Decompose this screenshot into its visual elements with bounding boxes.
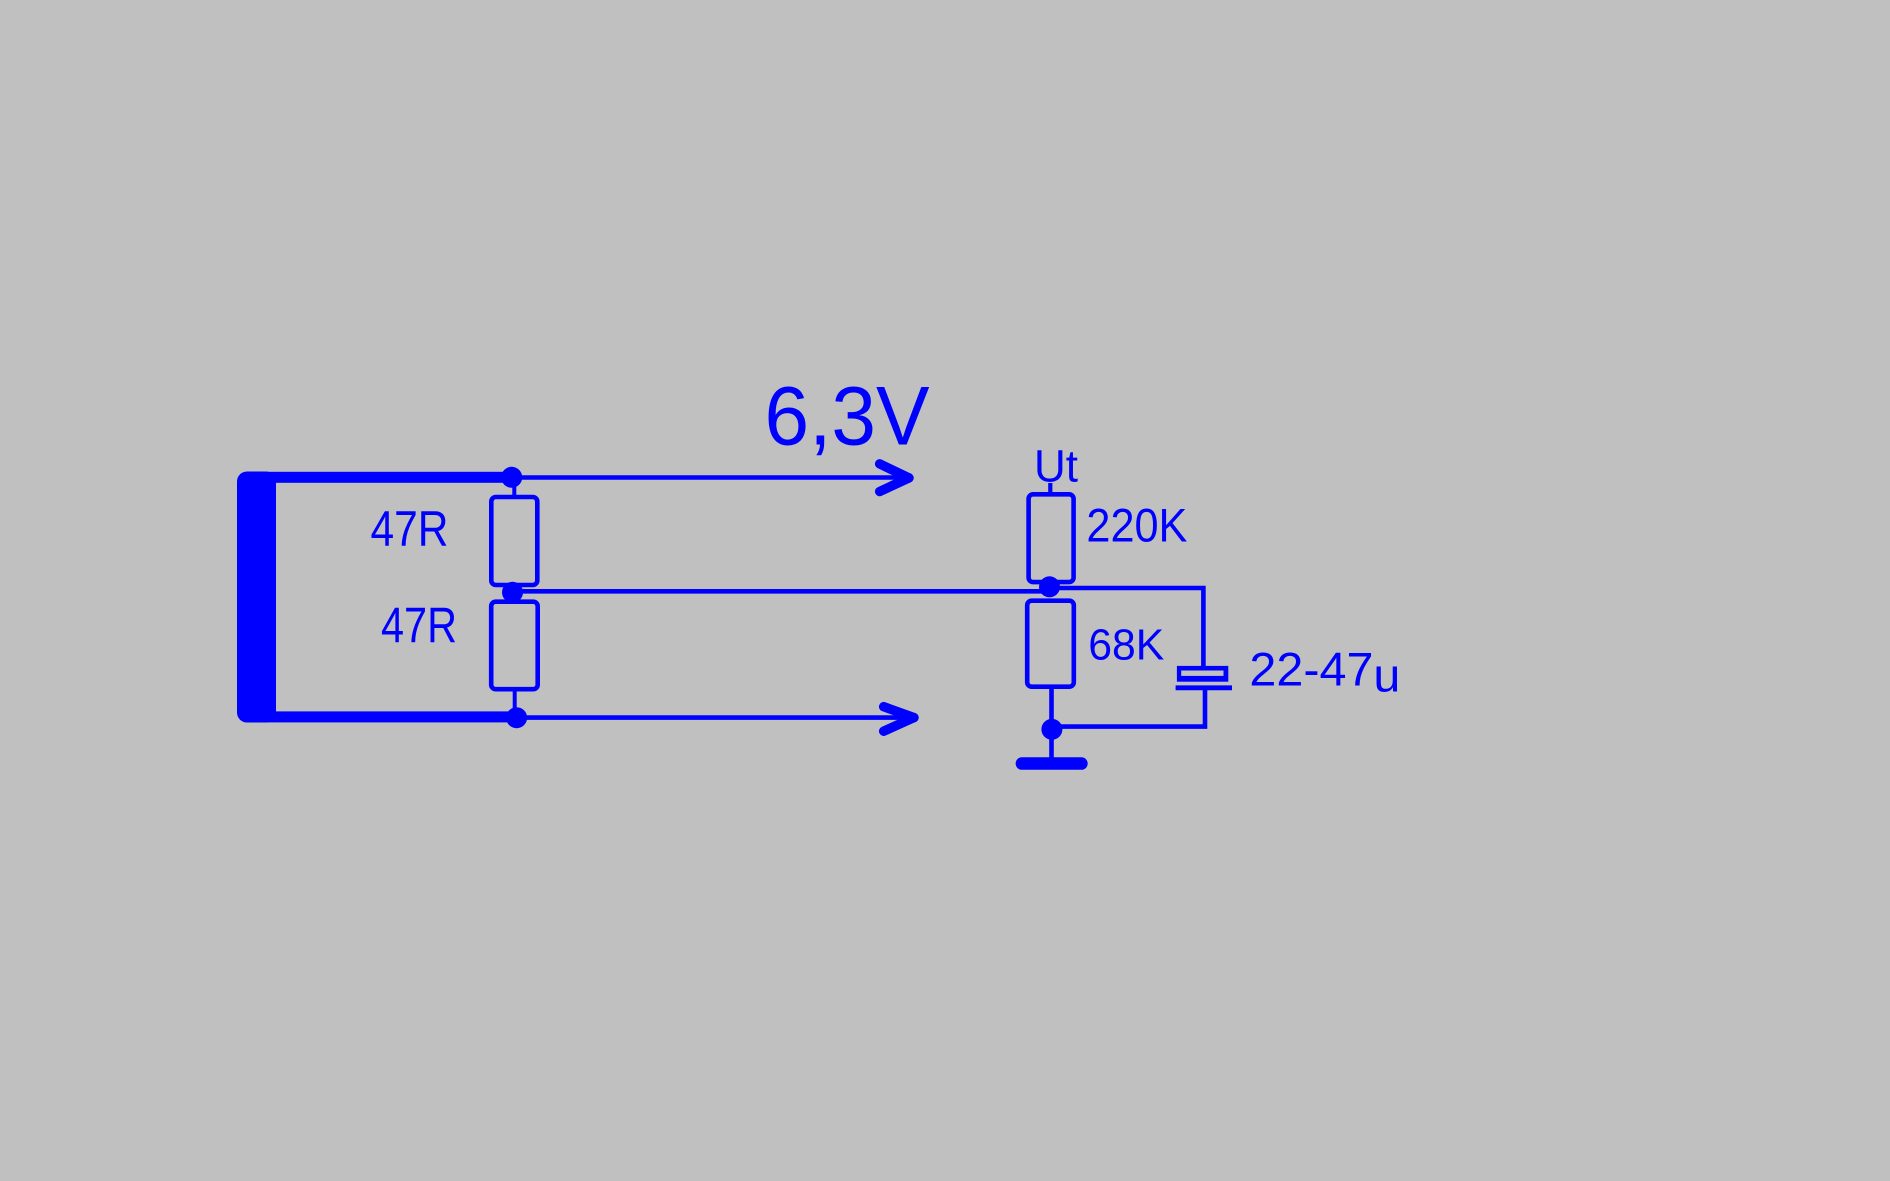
wire top output (6,3V) [512,475,909,480]
node B junction dot [502,582,523,603]
resistor R3 220K [1029,494,1074,582]
stub wire node A to R1 [512,483,516,496]
wire node E to capacitor bottom [1052,689,1205,727]
arrowhead 6,3V output [880,464,909,492]
svg-text:220K: 220K [1086,499,1187,552]
wire center tap to divider node [513,589,1050,594]
resistor R2 47R [491,602,538,690]
capacitor C1 bottom plate [1176,685,1232,690]
node E junction dot [1041,719,1062,740]
svg-text:22-47u: 22-47u [1249,644,1400,703]
heater/filament bracket (left electrode) [237,472,518,723]
svg-text:Ut: Ut [1034,441,1078,492]
stub wire R1 to node B [512,585,516,601]
node A junction dot [501,467,522,488]
wire bottom output [517,715,914,720]
node C junction dot [506,707,527,728]
stub wire Ut to R3 [1048,483,1052,495]
stub wire R4 to node E [1049,687,1054,720]
arrowhead bottom output [884,707,914,732]
node D junction dot [1039,576,1060,597]
ground [1016,757,1088,770]
wire node D to capacitor top [1050,588,1204,667]
stub wire node E to ground [1049,737,1054,759]
svg-text:68K: 68K [1088,621,1164,670]
svg-text:47R: 47R [371,501,449,557]
resistor R4 68K [1027,601,1074,687]
resistor R1 47R [491,497,537,585]
svg-text:47R: 47R [381,598,457,654]
svg-text:6,3V: 6,3V [765,369,930,462]
stub wire R2 to node C [513,689,517,714]
capacitor C1 top plate [1177,666,1228,682]
